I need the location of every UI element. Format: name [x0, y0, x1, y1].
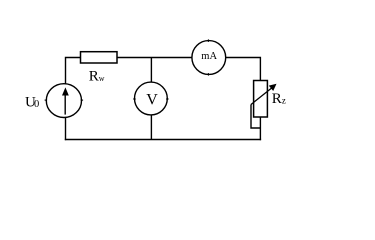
wire: voltmeter bottom to bottom rail — [150, 115, 152, 140]
wire: left branch from top rail down to source top, with top rail to Rw left — [66, 58, 81, 85]
svg-text:Rw: Rw — [89, 69, 105, 85]
wire: bottom rail — [65, 139, 261, 141]
voltage source U0 — [45, 84, 84, 118]
label U0 — [25, 95, 39, 111]
label V — [146, 92, 158, 109]
wire: Rz bottom lead to bottom rail — [259, 117, 261, 140]
svg-text:mA: mA — [201, 51, 217, 62]
variable resistor Rz — [251, 81, 277, 118]
svg-text:V: V — [146, 92, 158, 109]
voltmeter V — [133, 82, 168, 115]
wire: mA right to Rz top — [226, 58, 261, 81]
svg-text:Rz: Rz — [272, 91, 286, 107]
svg-text:U0: U0 — [25, 95, 39, 111]
ammeter mA — [192, 39, 226, 75]
wire: Rz wiper tail — [251, 105, 261, 129]
label Rz — [272, 91, 286, 107]
label Rw — [89, 69, 105, 85]
wire: source bottom to bottom rail — [65, 118, 67, 141]
wire: Rw right to mA left (top rail middle) — [117, 57, 192, 59]
label mA — [201, 51, 217, 62]
wire: junction stem down to voltmeter top — [150, 58, 152, 83]
resistor Rw — [81, 52, 118, 63]
